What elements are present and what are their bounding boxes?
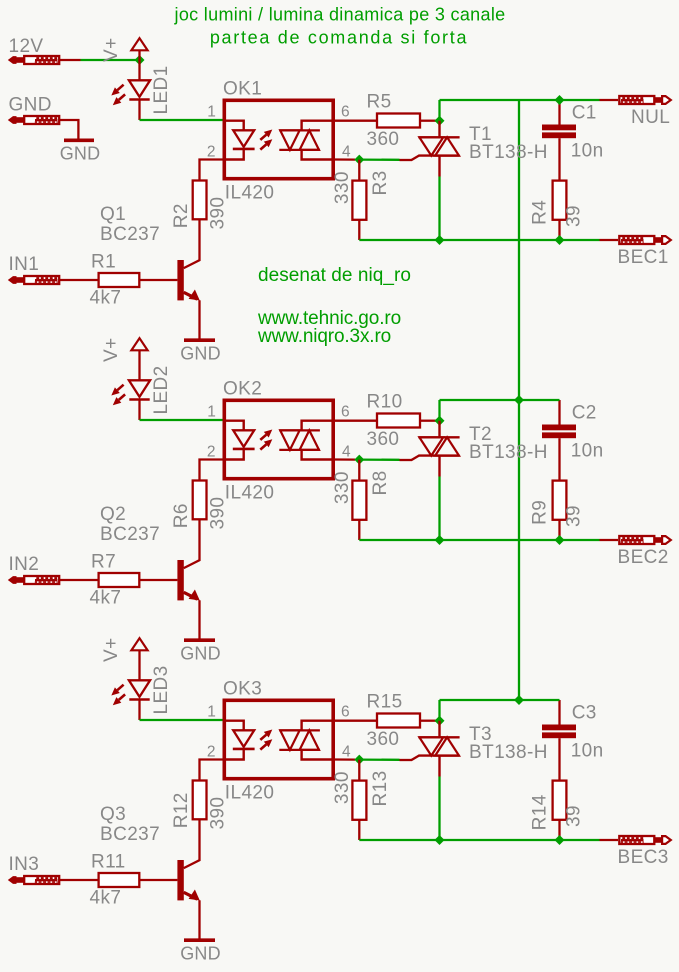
svg-text:Q1: Q1: [100, 204, 126, 225]
wire bottom rail to BEC2: [359, 539, 599, 541]
svg-text:GND: GND: [180, 643, 221, 663]
junction OK2 pin4 / R8: [354, 455, 364, 465]
svg-text:C2: C2: [572, 403, 597, 424]
svg-text:GND: GND: [60, 143, 101, 163]
junction OK3 pin4 / R13: [354, 755, 364, 765]
ground symbol at GND connector: [64, 139, 94, 143]
junction T3 MT2 / R15: [435, 716, 445, 726]
svg-text:4k7: 4k7: [90, 888, 122, 909]
wire OK2 pin 4 to junction: [335, 458, 355, 460]
wire IN1 to R1: [60, 279, 99, 281]
svg-text:R3: R3: [370, 170, 391, 195]
connector IN2: [8, 576, 59, 584]
resistor R12 390: [193, 781, 207, 820]
junction R9 / bottom rail: [555, 535, 565, 545]
wire C2 to R9: [558, 438, 560, 480]
svg-text:LED1: LED1: [151, 65, 172, 114]
resistor R3 330: [352, 181, 366, 220]
svg-text:V+: V+: [101, 637, 122, 662]
svg-text:R7: R7: [91, 552, 116, 573]
junction C1 / NUL rail: [555, 95, 565, 105]
svg-text:330: 330: [332, 471, 353, 504]
svg-text:R4: R4: [529, 200, 550, 225]
wire 12V to V+ node: [81, 59, 137, 61]
wire R3 to bottom rail: [358, 220, 360, 240]
svg-text:6: 6: [341, 704, 350, 721]
svg-text:10n: 10n: [571, 440, 604, 461]
supply V+ (channel 1): [101, 37, 148, 62]
svg-text:BEC2: BEC2: [618, 547, 669, 568]
svg-text:R13: R13: [370, 770, 391, 806]
wire OK1 pin 6 to R5: [335, 120, 377, 122]
connector BEC2: [619, 536, 671, 544]
svg-text:6: 6: [341, 104, 350, 121]
junction R4 / bottom rail: [555, 235, 565, 245]
connector IN3: [8, 876, 59, 884]
svg-text:R9: R9: [529, 500, 550, 525]
svg-text:V+: V+: [101, 37, 122, 62]
svg-text:12V: 12V: [9, 36, 44, 57]
svg-text:joc lumini / lumina dinamica p: joc lumini / lumina dinamica pe 3 canale: [174, 5, 506, 25]
junction NUL distribution rail / channel 2 rail: [514, 395, 524, 405]
triac T1 BT138-H: [400, 121, 460, 177]
resistor R1 4k7: [99, 273, 140, 287]
ground symbol at Q1 emitter: [180, 340, 221, 363]
wire R6 to Q2 collector: [184, 519, 200, 568]
pin wire of BEC3 connector: [600, 839, 619, 841]
resistor R5 360: [377, 114, 420, 128]
wire C3 to R14: [558, 738, 560, 780]
svg-text:BC237: BC237: [100, 524, 160, 545]
svg-text:IN3: IN3: [9, 854, 40, 875]
svg-text:R12: R12: [171, 792, 192, 828]
wire R5 to triac T1 MT2 node: [420, 120, 436, 122]
wire R1 to Q1 base: [139, 279, 177, 281]
wire junction to R3: [358, 160, 360, 181]
opto-triac OK2 IL420: [223, 400, 336, 478]
transistor Q1 BC237 (NPN): [177, 260, 199, 339]
svg-text:R6: R6: [171, 503, 192, 528]
wire NUL distribution rail (channel1 to channel3): [518, 100, 520, 700]
wire top rail to T3 MT2 junction: [438, 700, 440, 721]
resistor R6 390: [193, 481, 207, 520]
svg-text:330: 330: [332, 171, 353, 204]
svg-text:390: 390: [208, 497, 229, 530]
wire C1 to R4: [558, 138, 560, 180]
wire OK2 pin 2 to R6: [200, 460, 223, 481]
wire R10 to triac T2 MT2 node: [420, 420, 436, 422]
connector GND input: [8, 116, 59, 124]
wire IN3 to R11: [60, 879, 99, 881]
wire OK1 pin 2 to R2: [200, 160, 223, 181]
wire OK2 pin 6 to R10: [335, 420, 377, 422]
svg-text:IL420: IL420: [225, 482, 275, 503]
wire OK3 pin 4 to junction: [335, 758, 355, 760]
svg-text:2: 2: [207, 143, 216, 160]
svg-text:R15: R15: [367, 692, 403, 713]
wire R9 to bottom rail: [558, 520, 560, 540]
svg-text:360: 360: [367, 729, 400, 750]
wire NUL top rail (channel 1): [440, 99, 600, 101]
opto-triac OK1 IL420: [223, 100, 336, 178]
wire top rail to C2: [558, 400, 560, 425]
wire GND connector to ground symbol: [60, 120, 79, 139]
opto-triac OK3 IL420: [223, 700, 336, 778]
svg-text:39: 39: [563, 505, 584, 527]
supply V+ (channel 2): [101, 337, 148, 362]
wire T3 MT1 to bottom rail: [438, 777, 440, 841]
wire R7 to Q2 base: [139, 579, 177, 581]
junction OK1 pin4 / R3: [354, 155, 364, 165]
wire R12 to Q3 collector: [184, 819, 200, 868]
svg-text:BT138-H: BT138-H: [469, 142, 548, 163]
svg-text:R8: R8: [370, 470, 391, 495]
wire R15 to triac T3 MT2 node: [420, 720, 436, 722]
svg-text:V+: V+: [101, 337, 122, 362]
svg-text:C3: C3: [572, 703, 597, 724]
wire R11 to Q3 base: [139, 879, 177, 881]
junction T1 MT2 / R5: [435, 116, 445, 126]
capacitor C1 10n: [542, 125, 576, 139]
svg-text:4: 4: [342, 143, 351, 160]
resistor R2 390: [193, 181, 207, 220]
svg-text:R2: R2: [171, 203, 192, 228]
svg-text:BEC3: BEC3: [618, 847, 669, 868]
pin wire of 12V connector: [60, 59, 81, 61]
svg-text:R5: R5: [367, 92, 392, 113]
svg-text:desenat de niq_ro: desenat de niq_ro: [258, 265, 411, 286]
svg-text:GND: GND: [180, 343, 221, 363]
junction T3 MT1 / bottom rail: [435, 835, 445, 845]
svg-text:BT138-H: BT138-H: [469, 442, 548, 463]
wire IN2 to R7: [60, 579, 99, 581]
svg-text:6: 6: [341, 404, 350, 421]
wire junction to R13: [358, 760, 360, 781]
junction T2 MT2 / R10: [435, 416, 445, 426]
ground symbol at Q2 emitter: [180, 640, 221, 663]
svg-text:BT138-H: BT138-H: [469, 742, 548, 763]
wire top rail to T1 MT2 junction: [438, 100, 440, 121]
svg-text:www.niqro.3x.ro: www.niqro.3x.ro: [257, 326, 391, 347]
resistor R15 360: [377, 714, 420, 728]
wire gate net to T3 gate: [359, 758, 399, 761]
svg-text:GND: GND: [180, 943, 221, 963]
svg-text:39: 39: [563, 805, 584, 827]
junction 12V / V+ / LED1: [135, 55, 145, 65]
connector IN1: [8, 276, 59, 284]
wire R2 to Q1 collector: [184, 219, 200, 268]
wire top rail (channel 3): [440, 699, 560, 701]
capacitor C3 10n: [542, 725, 576, 739]
wire R14 to bottom rail: [558, 820, 560, 840]
wire bottom rail to BEC1: [359, 239, 599, 241]
wire T2 MT1 to bottom rail: [438, 477, 440, 541]
wire gate net to T1 gate: [359, 158, 399, 160]
pin wire of BEC1 connector: [600, 239, 619, 241]
wire net N3A (LED cathode to OK3 pin 1): [140, 719, 223, 721]
pin wire of NUL connector: [600, 99, 619, 101]
wire top rail to T2 MT2 junction: [438, 400, 440, 421]
junction T2 MT1 / bottom rail: [435, 535, 445, 545]
wire gate net to T2 gate: [359, 458, 399, 460]
svg-text:10n: 10n: [571, 140, 604, 161]
wire R13 to bottom rail: [358, 820, 360, 840]
svg-text:360: 360: [367, 429, 400, 450]
svg-text:39: 39: [563, 205, 584, 227]
svg-text:4k7: 4k7: [90, 288, 122, 309]
wire R8 to bottom rail: [358, 520, 360, 540]
supply V+ (channel 3): [101, 637, 148, 662]
svg-text:390: 390: [208, 197, 229, 230]
wire OK3 pin 6 to R15: [335, 720, 377, 722]
svg-text:OK1: OK1: [223, 78, 262, 99]
svg-text:OK3: OK3: [223, 678, 262, 699]
svg-text:4k7: 4k7: [90, 588, 122, 609]
junction T1 MT1 / bottom rail: [435, 235, 445, 245]
connector 12V: [8, 56, 59, 64]
wire net N1A (LED cathode to OK1 pin 1): [140, 119, 223, 121]
svg-text:C1: C1: [572, 103, 597, 124]
svg-text:4: 4: [342, 443, 351, 460]
svg-text:1: 1: [207, 404, 216, 421]
svg-text:390: 390: [208, 797, 229, 830]
transistor Q2 BC237 (NPN): [177, 560, 199, 639]
junction R14 / bottom rail: [555, 835, 565, 845]
svg-text:BC237: BC237: [100, 824, 160, 845]
resistor R13 330: [352, 781, 366, 820]
svg-text:R11: R11: [91, 852, 126, 873]
svg-text:LED3: LED3: [151, 665, 172, 714]
connector NUL: [619, 96, 671, 104]
connector BEC3: [619, 836, 671, 844]
LED LED2: [111, 360, 172, 420]
svg-text:1: 1: [207, 704, 216, 721]
svg-text:partea de comanda si forta: partea de comanda si forta: [210, 28, 468, 48]
wire junction to R8: [358, 460, 360, 481]
transistor Q3 BC237 (NPN): [177, 860, 199, 939]
wire top rail to C1: [558, 100, 560, 125]
wire top rail to C3: [558, 700, 560, 725]
svg-text:2: 2: [207, 443, 216, 460]
svg-text:R1: R1: [91, 252, 116, 273]
svg-text:BEC1: BEC1: [618, 247, 669, 268]
svg-text:BC237: BC237: [100, 224, 160, 245]
wire T1 MT1 to bottom rail: [438, 177, 440, 241]
wire bottom rail to BEC3: [359, 839, 599, 841]
svg-text:IL420: IL420: [225, 182, 275, 203]
svg-text:Q2: Q2: [100, 504, 126, 525]
svg-text:Q3: Q3: [100, 804, 126, 825]
junction NUL distribution rail / channel 3 rail: [514, 695, 524, 705]
svg-text:OK2: OK2: [223, 378, 262, 399]
wire OK3 pin 2 to R12: [200, 760, 223, 781]
resistor R7 4k7: [99, 573, 140, 587]
resistor R14 39: [553, 781, 567, 820]
triac T2 BT138-H: [400, 421, 460, 477]
wire top rail (channel 2): [440, 399, 560, 401]
resistor R4 39: [553, 181, 567, 220]
pin wire of BEC2 connector: [600, 539, 619, 541]
svg-text:IL420: IL420: [225, 782, 275, 803]
svg-text:GND: GND: [9, 95, 52, 116]
connector BEC1: [619, 236, 671, 244]
svg-text:10n: 10n: [571, 740, 604, 761]
LED LED1: [111, 60, 172, 120]
wire net N2A (LED cathode to OK2 pin 1): [140, 419, 223, 421]
triac T3 BT138-H: [400, 721, 460, 777]
svg-text:LED2: LED2: [151, 365, 172, 414]
resistor R11 4k7: [99, 873, 140, 887]
svg-text:IN1: IN1: [9, 254, 40, 275]
LED LED3: [111, 660, 172, 720]
wire R4 to bottom rail: [558, 220, 560, 240]
svg-text:R10: R10: [367, 392, 403, 413]
resistor R9 39: [553, 481, 567, 520]
svg-text:4: 4: [342, 743, 351, 760]
resistor R8 330: [352, 481, 366, 520]
ground symbol at Q3 emitter: [180, 940, 221, 963]
capacitor C2 10n: [542, 425, 576, 439]
svg-text:IN2: IN2: [9, 554, 40, 575]
wire OK1 pin 4 to junction: [335, 158, 355, 160]
svg-text:R14: R14: [529, 794, 550, 830]
resistor R10 360: [377, 414, 420, 428]
svg-text:330: 330: [332, 771, 353, 804]
svg-text:1: 1: [207, 104, 216, 121]
svg-text:360: 360: [367, 129, 400, 150]
svg-text:NUL: NUL: [631, 107, 670, 128]
svg-text:2: 2: [207, 743, 216, 760]
